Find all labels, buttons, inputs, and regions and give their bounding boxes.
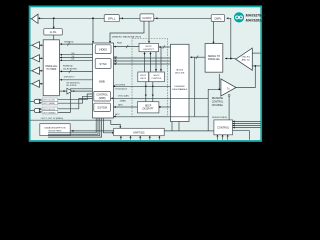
node on rail to divider (53, 18, 55, 20)
output buffer DOUT1 (32, 42, 39, 49)
svg-text:TO HDMI: TO HDMI (46, 68, 56, 71)
wire: audio row 4 (58, 89, 93, 113)
audio block I2S (94, 103, 111, 111)
wire: aux line to control (30, 120, 120, 127)
wire: rail drop to video latch (92, 18, 94, 41)
output buffer DOUT4 (32, 80, 39, 87)
panel frame (30, 6, 262, 141)
svg-text:OUT LV(868S): OUT LV(868S) (43, 112, 56, 114)
svg-text:HDCP: HDCP (140, 75, 147, 77)
main block video-sync-control (93, 43, 114, 118)
svg-text:HDCP: HDCP (154, 75, 161, 77)
wire: DE right (114, 63, 171, 65)
wire: CLKDIV clock to HDCP (148, 21, 150, 43)
wire: I2S control left (60, 79, 93, 81)
svg-text:DECODE: DECODE (175, 72, 185, 74)
wire: HDCP to descramble bus (159, 46, 171, 48)
svg-text:MAX9278A/: MAX9278A/ (246, 14, 266, 18)
wire: keys to audio decrypt (146, 82, 153, 102)
svg-text:DATA DESCRIPTION: DATA DESCRIPTION (45, 127, 66, 130)
wire: CM PLL to deserializer (213, 22, 215, 44)
key store HDCP KEYS (138, 72, 149, 82)
svg-text:(24-Bit R/G/B): (24-Bit R/G/B) (63, 67, 77, 70)
wire: decoder register links (172, 122, 179, 131)
svg-text:HDCP: HDCP (146, 46, 153, 48)
svg-text:MODE/CONFIG: MODE/CONFIG (212, 117, 227, 119)
svg-text:OUT[2:0]LD0: OUT[2:0]LD0 (115, 88, 128, 90)
interface block UART-I2C (114, 128, 165, 135)
wire: Tx input (195, 57, 221, 131)
svg-text:CLKDIV: CLKDIV (142, 17, 151, 20)
wire: audio buffer link (59, 90, 92, 92)
pll CM PLL box (211, 15, 224, 22)
wire: HS left (60, 54, 93, 56)
svg-text:OUT 2 (868S): OUT 2 (868S) (43, 103, 55, 105)
wire: audio row 3 (58, 99, 93, 109)
control block mode (214, 120, 233, 135)
wire: main block bottom pins (48, 118, 112, 137)
wire: mode inputs (233, 121, 261, 127)
svg-text:CHANNEL: CHANNEL (212, 104, 224, 107)
svg-text:I2S/TDM: I2S/TDM (97, 106, 106, 109)
arrow into CLKDIV (156, 17, 158, 19)
label reverse control channel (212, 97, 224, 107)
gate audio driver 2 (34, 108, 39, 112)
node on rail to video block (92, 18, 94, 20)
wire: PCLK rail (38, 17, 211, 19)
svg-text:(SMB): (SMB) (120, 101, 126, 103)
wire: mode aux (233, 131, 250, 140)
svg-text:CML EQ: CML EQ (242, 57, 251, 59)
svg-text:8b/10b: 8b/10b (176, 69, 183, 71)
wire: VS right (114, 60, 171, 62)
svg-text:AES: AES (118, 104, 123, 107)
wire: Tx enable (228, 97, 230, 120)
control block SMB (94, 91, 111, 101)
wire: PCLK stub (30, 18, 32, 20)
svg-text:PARALLEL: PARALLEL (208, 58, 221, 61)
svg-text:ACC: ACC (115, 113, 120, 116)
svg-text:DECRYPT: DECRYPT (143, 49, 154, 51)
wire: reverse channel return (236, 66, 255, 88)
wire: control data SMB line (111, 97, 209, 99)
svg-text:REGISTERS: REGISTERS (49, 131, 62, 133)
wire: CM PLL to CML node (226, 18, 230, 58)
output block parallel-to-HDMI (43, 40, 59, 96)
wire: UART pins (121, 136, 159, 140)
svg-text:VIDEO: VIDEO (99, 48, 107, 52)
wire: DOUT3 (30, 70, 43, 72)
decrypt HDCP engine (139, 43, 159, 51)
svg-text:SD-S/PDIF: SD-S/PDIF (66, 85, 77, 87)
logo mark (234, 12, 244, 22)
svg-text:MAX9282A: MAX9282A (246, 18, 265, 22)
signal label OUT4 (42, 111, 58, 115)
amp CML equalizer (236, 48, 253, 70)
part number label (246, 14, 266, 23)
decrypt HDCP audio (137, 102, 159, 113)
wire: RGB out bus (60, 43, 93, 45)
signal label OUT2 (42, 102, 58, 106)
wire: 24-bit RGB bus (60, 70, 93, 72)
control HDCP CONTROL (149, 72, 165, 82)
decoder block 8b10b-descramble (171, 44, 190, 121)
svg-text:1x RL: 1x RL (50, 30, 57, 34)
svg-text:DECRYPT: DECRYPT (143, 108, 155, 110)
wire: audio row 1 (58, 94, 93, 100)
wire: VS left (60, 57, 93, 59)
svg-text:I2S/CNTL?: I2S/CNTL? (64, 76, 76, 78)
clock divider box CLKDIV (140, 14, 154, 21)
svg-text:CONTROL: CONTROL (152, 78, 163, 80)
wire: CLKDIV pixel clock to video latch (110, 21, 144, 41)
arrow into divider (53, 27, 55, 29)
register box data-description (40, 124, 70, 136)
wire: RGB bus to HDCP (114, 46, 140, 48)
svg-text:RGB[9:0]: RGB[9:0] (64, 41, 73, 43)
wire: ACC line (114, 116, 209, 118)
svg-text:DPLL: DPLL (108, 17, 116, 21)
gate audio driver 1 (34, 99, 39, 103)
arrow into DPLL (121, 17, 123, 19)
label audio bus (66, 83, 80, 88)
svg-text:AND DC: AND DC (242, 58, 251, 61)
wire: EQ output (225, 58, 236, 60)
svg-text:OUT0/VBS: OUT0/VBS (115, 84, 126, 86)
signal label OUT3 (42, 107, 58, 111)
svg-text:(GRAYED: MAX9278A ONLY): (GRAYED: MAX9278A ONLY) (112, 36, 141, 39)
svg-text:RGB[9:0]/: RGB[9:0]/ (63, 66, 73, 68)
svg-text:KEYS: KEYS (140, 78, 146, 80)
pll U-DPLL (104, 15, 119, 22)
wire: audio row 2 (58, 96, 93, 103)
latch SYNC (95, 59, 111, 69)
divider box (44, 29, 63, 35)
output buffer DOUT3 (32, 67, 39, 74)
svg-text:CNTL (DAT): CNTL (DAT) (118, 94, 130, 97)
wire: control data out line (114, 85, 171, 87)
dashed region HDCP only (132, 39, 168, 117)
deserializer serial-to-parallel (205, 44, 223, 73)
wire: UART to mode control (164, 130, 214, 132)
svg-text:DESCRAMBLE: DESCRAMBLE (172, 88, 188, 91)
buffer audio (67, 88, 72, 94)
svg-text:(SMB): (SMB) (99, 97, 106, 100)
wire: keys feeds (145, 47, 162, 72)
svg-text:HDCP: HDCP (145, 105, 152, 107)
wire: DE left (60, 59, 93, 61)
svg-text:SMB: SMB (99, 79, 105, 83)
arrow into PCLK buffer (38, 17, 40, 19)
output buffer DOUT2 (32, 55, 39, 62)
wire: DOUT1 (30, 44, 43, 46)
wire: divider drop (53, 18, 55, 40)
wire: AES audio line (114, 106, 138, 108)
wire: DOUT2 (30, 57, 43, 59)
amp reverse channel Tx (221, 79, 236, 96)
latch VIDEO (95, 45, 111, 54)
svg-text:RGB: RGB (117, 43, 122, 45)
wire: audio decrypt to descramble (159, 106, 171, 108)
svg-text:CMPL: CMPL (214, 17, 222, 21)
wire: gate1 stub (30, 100, 34, 102)
wire: gate2 stub (30, 110, 34, 112)
wire: gate taps (39, 100, 42, 112)
wire: mode bottom pins (217, 135, 227, 140)
svg-text:UART/I2C: UART/I2C (133, 130, 145, 134)
svg-text:CONTROL: CONTROL (217, 126, 230, 129)
wire: CML input plus (252, 52, 260, 54)
wire: DOUT4 (30, 83, 43, 85)
arrow into CM PLL (226, 17, 228, 19)
wire: CML input minus (252, 65, 260, 67)
wire: serial bus to decoder (190, 56, 205, 58)
wire: HS right (114, 57, 171, 59)
signal label OUT1 (42, 98, 58, 102)
wire: register link (70, 130, 114, 132)
buffer PCLK output (32, 14, 39, 23)
svg-text:SYNC: SYNC (99, 62, 107, 66)
svg-text:DESKEW/: DESKEW/ (175, 86, 185, 88)
